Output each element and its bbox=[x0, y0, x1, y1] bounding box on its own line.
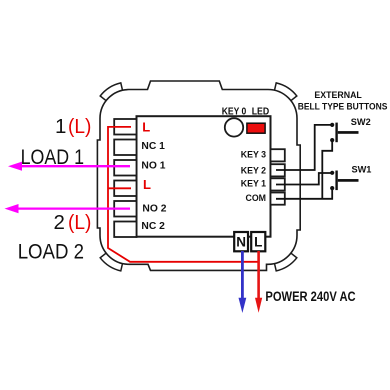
wire LOAD2 from NO2 bbox=[17, 207, 131, 209]
svg-text:L: L bbox=[142, 119, 150, 134]
switch SW1 contact bottom bbox=[330, 186, 334, 190]
wire live red power bbox=[257, 251, 260, 299]
svg-text:SW1: SW1 bbox=[352, 165, 372, 175]
svg-text:NC 2: NC 2 bbox=[141, 221, 165, 232]
svg-text:2: 2 bbox=[54, 211, 65, 234]
wire LOAD1 from NO1 bbox=[20, 165, 130, 167]
svg-text:KEY 3: KEY 3 bbox=[241, 150, 266, 160]
terminal KEY1 bbox=[271, 178, 285, 190]
switch SW2 plunger bbox=[338, 131, 359, 134]
wire red live to L1 and L2 and mains L bbox=[108, 127, 259, 262]
wire neutral blue bbox=[241, 251, 244, 299]
arrowhead LOAD2 bbox=[5, 204, 19, 213]
svg-text:BELL TYPE BUTTONS: BELL TYPE BUTTONS bbox=[298, 101, 388, 112]
switch SW2 bar bbox=[335, 123, 337, 143]
svg-text:KEY 2: KEY 2 bbox=[241, 165, 266, 175]
svg-text:N: N bbox=[236, 235, 246, 250]
wire red branch to L2 bbox=[108, 187, 131, 189]
terminal NO2 bbox=[114, 201, 136, 217]
svg-text:COM: COM bbox=[245, 193, 266, 203]
wire KEY2 to SW2 top bbox=[276, 125, 332, 170]
svg-text:L: L bbox=[254, 235, 262, 250]
arrowhead LOAD1 bbox=[8, 162, 22, 171]
svg-text:NO 2: NO 2 bbox=[142, 204, 166, 215]
arrowhead live bbox=[255, 298, 262, 313]
wire KEY1 to SW1 top bbox=[276, 173, 332, 185]
svg-text:NC 1: NC 1 bbox=[141, 141, 165, 152]
terminal N box bbox=[234, 232, 248, 251]
terminal KEY2 bbox=[271, 164, 285, 176]
svg-text:KEY 0: KEY 0 bbox=[222, 106, 247, 118]
switch SW2 contact top bbox=[330, 123, 334, 127]
terminal L2 bbox=[114, 181, 136, 197]
arrowhead neutral bbox=[239, 298, 247, 313]
svg-text:SW2: SW2 bbox=[351, 117, 371, 127]
switch SW1 plunger bbox=[338, 179, 359, 182]
svg-text:1: 1 bbox=[55, 115, 66, 138]
svg-text:POWER 240V AC: POWER 240V AC bbox=[265, 289, 355, 305]
svg-text:(L): (L) bbox=[68, 211, 91, 234]
wire SW2 bottom to COM bbox=[322, 140, 332, 199]
mounting tab bottom-right bbox=[274, 253, 296, 271]
svg-text:LOAD 2: LOAD 2 bbox=[18, 240, 84, 263]
mounting tab top-right bbox=[274, 83, 296, 101]
device module outline bbox=[97, 81, 300, 270]
terminal NC2 bbox=[114, 222, 136, 238]
svg-text:NO 1: NO 1 bbox=[141, 161, 165, 172]
wire COM to SW1 bottom bbox=[276, 188, 332, 199]
terminal NC1 bbox=[114, 140, 136, 156]
svg-text:LOAD 1: LOAD 1 bbox=[21, 146, 84, 169]
svg-text:LED: LED bbox=[252, 106, 270, 118]
svg-text:KEY 1: KEY 1 bbox=[241, 179, 266, 189]
terminal KEY3 bbox=[271, 149, 285, 161]
mounting tab top-left bbox=[100, 83, 122, 101]
switch SW1 bar bbox=[335, 171, 337, 191]
terminal NO1 bbox=[114, 160, 136, 176]
key 0 push button bbox=[225, 118, 243, 136]
LED indicator bbox=[247, 123, 265, 133]
switch SW1 contact top bbox=[330, 171, 334, 175]
terminal COM bbox=[271, 193, 285, 205]
mounting tab bottom-left bbox=[100, 253, 122, 271]
svg-text:EXTERNAL: EXTERNAL bbox=[314, 90, 362, 100]
switch SW2 contact bottom bbox=[330, 138, 334, 142]
main terminal block box bbox=[137, 116, 271, 237]
svg-text:(L): (L) bbox=[68, 115, 91, 138]
terminal L1 bbox=[114, 119, 136, 135]
terminal L box bbox=[251, 232, 265, 251]
svg-text:L: L bbox=[143, 177, 151, 192]
